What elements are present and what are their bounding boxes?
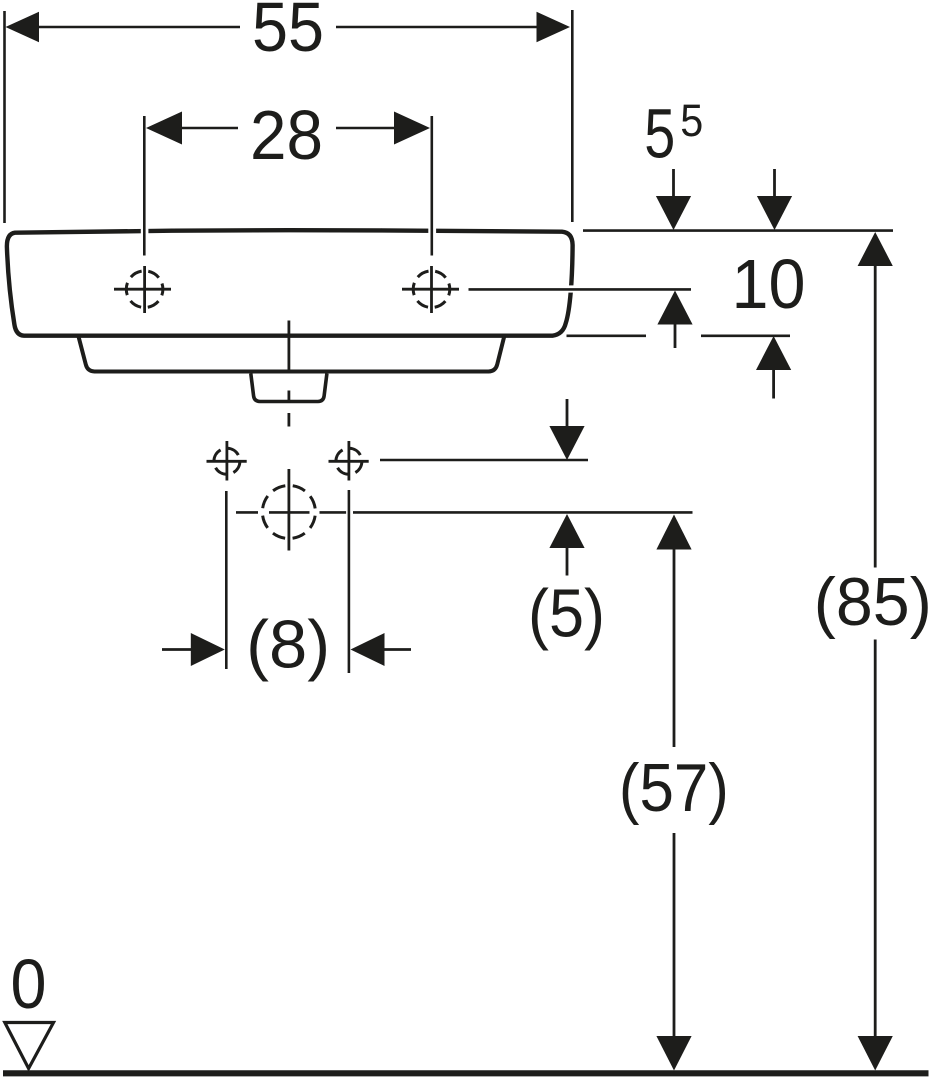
dimension 5: up arrow [549, 514, 584, 548]
dimension 28: dimension line segments [180, 127, 238, 130]
dimension 55: left extension line [3, 11, 6, 223]
svg-text:(57): (57) [619, 750, 729, 826]
svg-text:5: 5 [644, 94, 675, 172]
faucet hole right: dashed circle [413, 271, 450, 308]
faucet hole left: crosshair [114, 288, 171, 291]
reference line at faucet hole height (y=289) [469, 288, 692, 291]
fixing hole right: crosshair [329, 460, 369, 463]
dimension 55: dimension line segments [36, 26, 240, 29]
svg-text:(8): (8) [246, 606, 330, 682]
vertical centerline segments [287, 321, 290, 371]
reference line at basin rim (y=230) [583, 229, 893, 232]
drain box outline [251, 374, 327, 402]
dimension 55: right extension line [571, 10, 574, 222]
washbasin pedestal outline [79, 337, 505, 372]
white break in rim where 28-extension lines cross [141, 227, 149, 237]
fixing hole right: dashed circle [336, 448, 362, 474]
svg-text:28: 28 [250, 96, 323, 174]
faucet hole right: crosshair [402, 288, 459, 291]
dimension 55: right arrowhead [537, 12, 571, 43]
dimension 28: right extension line [430, 116, 433, 256]
dimension 28: left arrowhead [146, 112, 182, 145]
white break in right edge where faucet reference line crosses [566, 285, 577, 292]
dimension 10: down arrow [773, 169, 776, 198]
dimension 5.5: up arrow [657, 291, 692, 325]
svg-text:(5): (5) [528, 576, 605, 652]
washbasin body outline [7, 230, 573, 336]
dimension 10: up arrow [756, 336, 791, 370]
reference line at fixing holes (y=460) [380, 459, 588, 462]
dimension 8: left extension line [225, 491, 228, 669]
svg-text:10: 10 [732, 245, 806, 323]
svg-text:55: 55 [252, 0, 324, 66]
dimension 28: right arrowhead [394, 112, 430, 145]
drain hole: dashed circle [262, 486, 315, 539]
fixing hole left: dashed circle [214, 448, 240, 474]
svg-text:(85): (85) [814, 564, 930, 640]
dimension 28: left extension line [143, 116, 146, 256]
dimension 5.5: down arrow [672, 169, 675, 198]
ground line [3, 1070, 929, 1076]
dimension 5: down arrow [566, 399, 569, 429]
fixing hole left: crosshair [207, 460, 247, 463]
svg-text:0: 0 [11, 945, 47, 1023]
dimension 57: vertical line with arrows [656, 515, 691, 550]
dimension 8: right extension line [348, 490, 351, 673]
svg-text:5: 5 [680, 95, 703, 146]
dimension 85: vertical line with arrows [858, 232, 893, 266]
reference line at drain height (y=512) [236, 511, 258, 514]
drain hole: vertical crosshair [287, 469, 290, 551]
dimension 55: left arrowhead [6, 12, 40, 43]
datum triangle symbol [5, 1023, 54, 1069]
dimension 8: left-pointing arrow [351, 633, 385, 666]
reference line at basin bottom edge (y=335) [567, 334, 647, 337]
dimension 8: right-pointing arrow [162, 648, 192, 651]
faucet hole left: dashed circle [126, 271, 163, 308]
